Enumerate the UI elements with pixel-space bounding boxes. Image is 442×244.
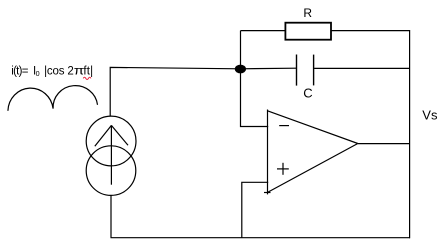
svg-text:C: C	[303, 86, 312, 101]
svg-text:i(t)=I0|cos 2πft|: i(t)=I0|cos 2πft|	[11, 66, 93, 79]
svg-text:Vs: Vs	[422, 108, 438, 123]
svg-text:R: R	[303, 6, 312, 20]
